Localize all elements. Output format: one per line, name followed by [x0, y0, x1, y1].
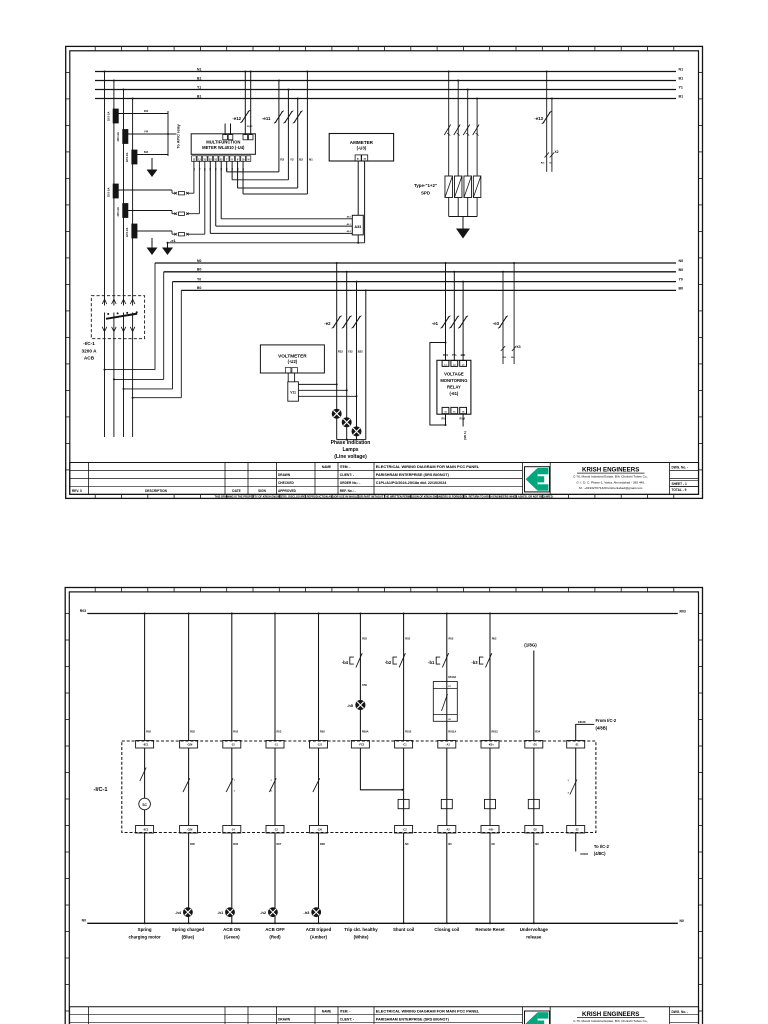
svg-text:R06: R06 — [233, 842, 238, 846]
svg-text:B0: B0 — [197, 268, 201, 272]
svg-text:-A2: -A2 — [446, 829, 451, 832]
svg-text:(-U3): (-U3) — [357, 146, 367, 151]
svg-text:REV. 0: REV. 0 — [72, 489, 82, 493]
svg-text:-h5: -h5 — [347, 703, 354, 708]
svg-text:R03: R03 — [80, 609, 86, 613]
svg-text:-126: -126 — [317, 829, 323, 832]
svg-text:-h1: -h1 — [217, 910, 224, 915]
svg-text:REF. No.: -: REF. No.: - — [340, 489, 356, 493]
svg-text:Y2: Y2 — [290, 158, 294, 162]
svg-text:VOLTMETER: VOLTMETER — [278, 354, 307, 359]
svg-text:-22: -22 — [575, 829, 579, 832]
svg-text:R34: R34 — [535, 730, 540, 734]
svg-text:B1: B1 — [679, 77, 684, 81]
svg-text:Y2: Y2 — [232, 168, 234, 170]
svg-text:3: 3 — [568, 780, 569, 782]
svg-text:R01: R01 — [443, 353, 448, 357]
svg-text:Y01: Y01 — [452, 353, 457, 357]
svg-text:-C(M: -C(M — [187, 829, 193, 832]
svg-text:NAME: NAME — [322, 465, 331, 469]
svg-text:3200-1/A: 3200-1/A — [117, 207, 120, 217]
svg-text:(White): (White) — [354, 935, 369, 940]
svg-text:N1: N1 — [197, 67, 201, 71]
svg-text:DRAWN: DRAWN — [278, 473, 291, 477]
svg-text:R012: R012 — [492, 730, 499, 734]
svg-text:N0: N0 — [448, 842, 452, 846]
svg-text:B1: B1 — [197, 76, 201, 80]
svg-text:B2: B2 — [299, 158, 303, 162]
svg-text:DWG. No. -: DWG. No. - — [672, 466, 689, 470]
svg-text:Y0: Y0 — [197, 277, 201, 281]
svg-text:-e2: -e2 — [324, 321, 331, 326]
svg-text:C-76, Maruti Industrial Estate: C-76, Maruti Industrial Estate, B/h. Cho… — [573, 1019, 648, 1023]
svg-text:N0: N0 — [680, 919, 684, 923]
svg-text:-h3: -h3 — [303, 910, 310, 915]
svg-text:N0: N0 — [197, 259, 201, 263]
svg-text:-b1: -b1 — [428, 660, 435, 665]
svg-text:-A1: -A1 — [446, 744, 451, 747]
svg-text:Y0: Y0 — [679, 278, 683, 282]
svg-text:Trip ckt. healthy: Trip ckt. healthy — [344, 927, 378, 932]
svg-text:(4/8B): (4/8B) — [596, 725, 608, 730]
svg-text:Y1: Y1 — [199, 168, 201, 170]
svg-text:R09A: R09A — [362, 730, 369, 734]
svg-text:-e1: -e1 — [432, 321, 439, 326]
svg-text:VOLTAGE: VOLTAGE — [444, 371, 464, 376]
svg-text:R08: R08 — [320, 842, 325, 846]
svg-text:R03: R03 — [449, 637, 454, 641]
svg-text:(-61): (-61) — [449, 391, 458, 396]
svg-text:V11: V11 — [290, 391, 296, 395]
svg-text:R02: R02 — [146, 730, 151, 734]
svg-text:R02: R02 — [405, 637, 410, 641]
svg-text:-I/C-1: -I/C-1 — [83, 341, 95, 346]
svg-text:Y1: Y1 — [197, 85, 201, 89]
svg-text:-b2: -b2 — [385, 660, 392, 665]
svg-text:B3: B3 — [221, 168, 223, 170]
svg-text:(1/8G): (1/8G) — [524, 643, 537, 648]
svg-text:R07: R07 — [277, 842, 282, 846]
svg-text:Y3: Y3 — [216, 168, 218, 170]
svg-text:-KB-: -KB- — [488, 829, 493, 832]
svg-text:K610A: K610A — [448, 675, 456, 679]
svg-text:-11: -11 — [274, 744, 278, 747]
svg-text:-D1: -D1 — [533, 744, 538, 747]
svg-text:3200-1/A: 3200-1/A — [107, 111, 110, 121]
svg-text:To AP/C relay: To AP/C relay — [177, 123, 181, 148]
svg-text:R44: R44 — [144, 110, 149, 113]
svg-text:ACB tripped: ACB tripped — [306, 927, 332, 932]
svg-text:CLIENT: -: CLIENT: - — [340, 1017, 354, 1021]
svg-text:R3: R3 — [210, 168, 212, 170]
svg-text:K8108: K8108 — [578, 720, 586, 724]
svg-text:R2: R2 — [280, 158, 284, 162]
svg-text:CLIENT: -: CLIENT: - — [340, 473, 354, 477]
svg-text:-e13: -e13 — [534, 116, 543, 121]
svg-text:K59: K59 — [362, 683, 367, 687]
svg-text:R1: R1 — [194, 168, 196, 170]
svg-text:M : +919327071329 krishe: M : +919327071329 krishenlabad@gmail.com — [579, 486, 643, 490]
svg-text:N0: N0 — [679, 259, 684, 263]
svg-text:C-76, Maruti Industrial Estate: C-76, Maruti Industrial Estate, B/h. Cho… — [573, 475, 648, 479]
svg-text:-FC5: -FC5 — [359, 744, 365, 747]
svg-text:-e3: -e3 — [493, 321, 500, 326]
svg-text:(Green): (Green) — [224, 935, 240, 940]
svg-text:R02: R02 — [233, 730, 238, 734]
svg-text:(4/8C): (4/8C) — [594, 851, 606, 856]
svg-text:release: release — [526, 935, 542, 940]
svg-text:ACB OFF: ACB OFF — [265, 927, 285, 932]
svg-text:Spring charged: Spring charged — [172, 927, 205, 932]
svg-text:N: N — [248, 158, 250, 161]
svg-text:-h4: -h4 — [175, 910, 182, 915]
svg-text:G. I. D. C. Phase-1, Vatva, Ah: G. I. D. C. Phase-1, Vatva, Ahmedabad - … — [576, 480, 645, 484]
svg-text:(Amber): (Amber) — [310, 935, 327, 940]
svg-text:C1PL/A1/PO/2024-25/18a dtd. 22: C1PL/A1/PO/2024-25/18a dtd. 22/10/2024 — [376, 481, 447, 485]
svg-text:N0: N0 — [82, 919, 86, 923]
svg-text:R1M: R1M — [460, 418, 465, 421]
svg-text:2: 2 — [234, 791, 235, 793]
svg-text:Undervoltage: Undervoltage — [520, 927, 549, 932]
svg-text:Lamps: Lamps — [342, 447, 358, 453]
svg-text:ITEM: -: ITEM: - — [340, 1010, 351, 1014]
svg-text:3200-1/A: 3200-1/A — [107, 187, 110, 197]
svg-text:-e12: -e12 — [232, 116, 241, 121]
svg-text:Y44: Y44 — [144, 131, 149, 134]
svg-text:SC: SC — [142, 803, 147, 807]
svg-text:R012: R012 — [405, 730, 412, 734]
svg-text:B44: B44 — [144, 151, 149, 154]
svg-text:-8C1: -8C1 — [143, 744, 149, 747]
svg-text:MULTIFUNCTION: MULTIFUNCTION — [206, 139, 240, 144]
svg-text:-C2: -C2 — [403, 829, 408, 832]
svg-text:DATE: DATE — [232, 489, 240, 493]
svg-text:-b4: -b4 — [342, 660, 349, 665]
svg-text:PARISHRAM ENTERPRISE (SRS BIGN: PARISHRAM ENTERPRISE (SRS BIGNOT) — [376, 1017, 450, 1021]
svg-text:-8C2: -8C2 — [143, 829, 149, 832]
svg-text:ACB ON: ACB ON — [223, 927, 240, 932]
svg-text:R52: R52 — [190, 730, 195, 734]
svg-text:R02: R02 — [320, 730, 325, 734]
svg-text:N1: N1 — [309, 158, 313, 162]
svg-text:R011A: R011A — [448, 730, 456, 734]
svg-text:ELECTRICAL WIRING DIAGRAM FOR: ELECTRICAL WIRING DIAGRAM FOR MAIN PCC P… — [376, 1009, 480, 1014]
svg-text:PARISHRAM ENTERPRISE (SRS BIGN: PARISHRAM ENTERPRISE (SRS BIGNOT) — [376, 473, 450, 477]
svg-text:-e11: -e11 — [262, 116, 271, 121]
svg-text:Y22: Y22 — [348, 349, 353, 353]
svg-text:-14: -14 — [231, 829, 235, 832]
svg-text:SIGN: SIGN — [258, 489, 266, 493]
svg-text:B0: B0 — [679, 268, 684, 272]
svg-text:KRISH ENGINEERS: KRISH ENGINEERS — [582, 1011, 639, 1018]
svg-text:B22: B22 — [358, 349, 363, 353]
svg-text:DESCRIPTION: DESCRIPTION — [145, 489, 167, 493]
svg-text:ACB: ACB — [84, 356, 95, 361]
svg-text:3200-1/A: 3200-1/A — [126, 152, 129, 162]
svg-text:A1: A1 — [357, 158, 359, 161]
svg-text:B1: B1 — [679, 95, 684, 99]
svg-text:Shunt coil: Shunt coil — [393, 927, 414, 932]
svg-text:R2: R2 — [227, 168, 229, 170]
svg-text:-h2: -h2 — [260, 910, 267, 915]
svg-text:charging motor: charging motor — [128, 935, 160, 940]
svg-text:-b3: -b3 — [471, 660, 478, 665]
svg-text:Phase Indication: Phase Indication — [331, 440, 371, 446]
svg-text:DRAWN: DRAWN — [278, 1017, 291, 1021]
svg-text:From I/C-2: From I/C-2 — [596, 718, 617, 723]
svg-text:SPD: SPD — [421, 190, 430, 195]
svg-text:Closing coil: Closing coil — [434, 927, 459, 932]
svg-text:(Blue): (Blue) — [182, 935, 195, 940]
svg-text:KRISH ENGINEERS: KRISH ENGINEERS — [582, 467, 639, 474]
svg-text:To I/C-2: To I/C-2 — [594, 844, 610, 849]
svg-text:(3/9 A): (3/9 A) — [463, 431, 467, 440]
svg-text:3200-1/A: 3200-1/A — [126, 227, 129, 237]
svg-text:(Red): (Red) — [269, 935, 281, 940]
svg-text:-I/C-1: -I/C-1 — [94, 787, 108, 793]
svg-text:-21: -21 — [575, 744, 579, 747]
svg-text:X3: X3 — [517, 345, 521, 349]
svg-text:-D2: -D2 — [533, 829, 538, 832]
svg-text:Spring: Spring — [138, 927, 152, 932]
svg-text:3: 3 — [270, 780, 271, 782]
svg-text:N1: N1 — [243, 168, 245, 170]
svg-text:-12: -12 — [274, 829, 278, 832]
svg-text:-e1: -e1 — [170, 238, 177, 243]
svg-text:Type-"1+2": Type-"1+2" — [414, 183, 437, 188]
svg-text:A33: A33 — [354, 225, 361, 229]
svg-text:ELECTRICAL WIRING DIAGRAM FOR: ELECTRICAL WIRING DIAGRAM FOR MAIN PCC P… — [376, 464, 480, 469]
svg-text:B0: B0 — [679, 286, 684, 290]
svg-text:R03: R03 — [680, 609, 686, 613]
svg-text:RELAY: RELAY — [447, 385, 461, 390]
svg-text:N0: N0 — [535, 842, 539, 846]
svg-text:B01: B01 — [461, 353, 466, 357]
svg-text:DWG. No. -: DWG. No. - — [672, 1010, 689, 1014]
svg-text:THIS DRAWING IS THE PROPERTY O: THIS DRAWING IS THE PROPERTY OF KRISH EN… — [214, 495, 553, 499]
svg-text:B0: B0 — [197, 286, 201, 290]
svg-text:R01: R01 — [442, 418, 447, 421]
svg-text:B1: B1 — [197, 94, 201, 98]
svg-text:Y1: Y1 — [679, 86, 683, 90]
svg-text:R02: R02 — [492, 637, 497, 641]
svg-text:APPROVED: APPROVED — [278, 489, 297, 493]
svg-text:R22: R22 — [338, 349, 343, 353]
svg-text:ORDER No.: -: ORDER No.: - — [340, 481, 361, 485]
svg-text:N0: N0 — [405, 842, 409, 846]
svg-text:ITEM: -: ITEM: - — [340, 465, 351, 469]
svg-text:-C1: -C1 — [403, 744, 408, 747]
svg-text:-KB+: -KB+ — [488, 744, 494, 747]
svg-text:1: 1 — [234, 780, 235, 782]
svg-text:(Line voltage): (Line voltage) — [334, 454, 367, 460]
svg-text:-121: -121 — [317, 744, 323, 747]
svg-text:N1: N1 — [679, 68, 684, 72]
svg-text:MONITORING: MONITORING — [440, 378, 467, 383]
svg-text:-12: -12 — [231, 744, 235, 747]
svg-text:AMMETER: AMMETER — [350, 140, 374, 145]
svg-text:R05: R05 — [190, 842, 195, 846]
svg-text:3200 A: 3200 A — [82, 349, 98, 354]
svg-text:-C(M: -C(M — [187, 744, 193, 747]
svg-text:(-U2): (-U2) — [288, 359, 298, 364]
svg-text:B1: B1 — [205, 168, 207, 170]
svg-text:NAME: NAME — [322, 1010, 331, 1014]
svg-text:K8118: K8118 — [581, 852, 589, 856]
svg-text:X2: X2 — [555, 150, 559, 154]
svg-text:B2: B2 — [237, 168, 239, 170]
svg-text:CHECKED: CHECKED — [278, 481, 294, 485]
svg-text:N0: N0 — [492, 842, 496, 846]
svg-text:R53: R53 — [277, 730, 282, 734]
svg-text:R53: R53 — [362, 637, 367, 641]
svg-text:METER WL4010 (-U4): METER WL4010 (-U4) — [202, 145, 245, 150]
svg-text:X2(N1: X2(N1 — [247, 126, 254, 128]
svg-text:TOTAL - 9: TOTAL - 9 — [672, 488, 687, 492]
svg-text:SHEET - 1: SHEET - 1 — [672, 482, 687, 486]
svg-text:3200-1/A: 3200-1/A — [117, 132, 120, 142]
svg-text:Remote Reset: Remote Reset — [475, 927, 505, 932]
